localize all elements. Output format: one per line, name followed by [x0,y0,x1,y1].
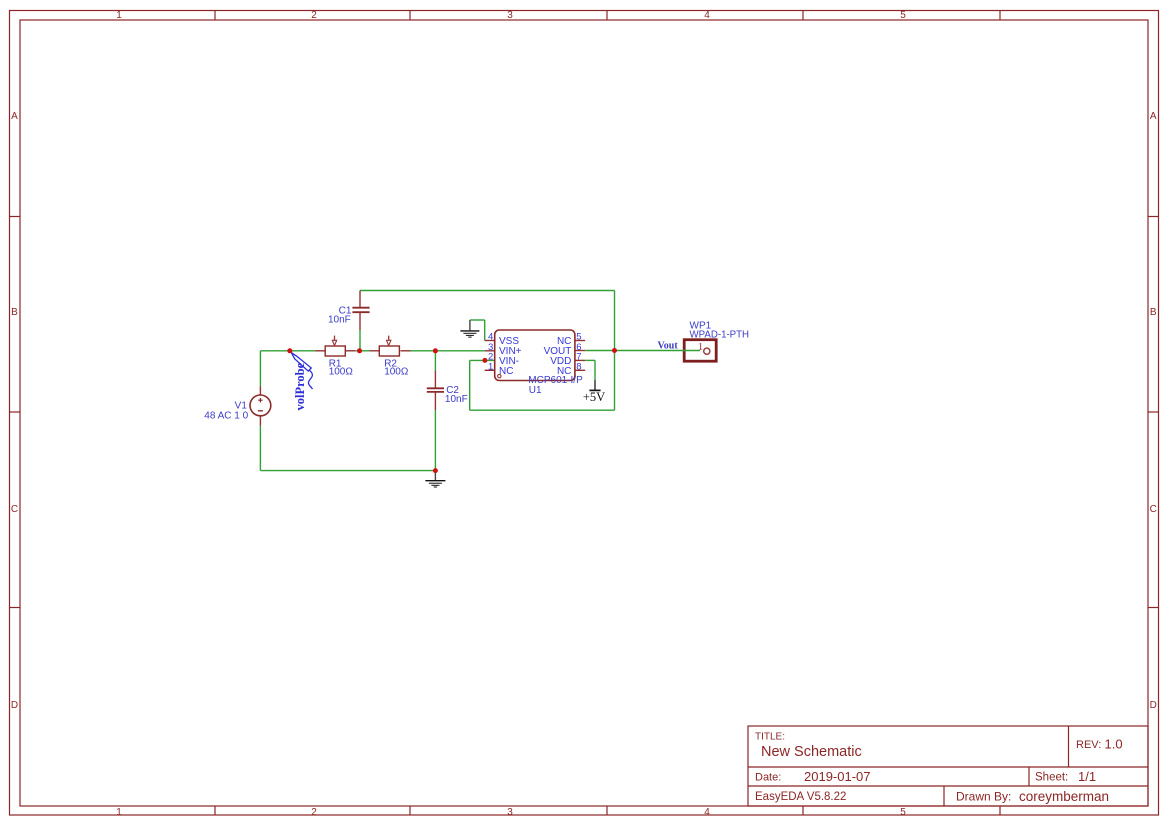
power +5V [583,380,605,404]
probe volProbe [291,353,312,390]
svg-text:D: D [11,700,18,711]
svg-text:1: 1 [488,362,493,373]
svg-text:5: 5 [900,10,906,21]
column ticks top [214,11,216,21]
title block text [755,732,1123,805]
body [495,330,575,381]
svg-text:1/1: 1/1 [1078,769,1096,784]
frame column numbers top [116,10,906,21]
wire V1 top vertical [259,351,261,386]
junction node output [612,348,617,353]
junction node C2 top [433,348,438,353]
wire main left segment [260,291,614,471]
capacitor C1 [328,291,370,331]
pin 1 stub [485,369,495,371]
svg-text:D: D [1150,700,1157,711]
svg-text:1: 1 [116,10,122,21]
wire C1 bottom [359,330,361,351]
wire right vertical [614,291,616,411]
svg-text:TITLE:: TITLE: [755,732,785,743]
pin 4 stub [485,340,495,342]
svg-text:8: 8 [576,362,581,373]
svg-text:1.0: 1.0 [1105,737,1123,752]
svg-text:1: 1 [698,341,704,353]
svg-text:100Ω: 100Ω [329,367,354,378]
wire into pad [585,350,700,352]
junction node main/probe [287,348,292,353]
title block borders [748,726,1148,806]
frame row letters left [11,111,18,711]
pin 8 stub [575,369,585,371]
svg-text:5: 5 [900,807,906,818]
row ticks left [10,216,21,218]
svg-text:10nF: 10nF [328,314,351,325]
wire between R1 and R2 [355,350,369,352]
svg-text:Sheet:: Sheet: [1035,772,1068,784]
svg-text:10nF: 10nF [445,394,468,405]
svg-text:A: A [1150,111,1157,122]
pin 7 stub [575,359,585,361]
wire R2 to U1 pin3 [411,350,486,352]
wire gnd1 vertical [484,320,486,341]
wire C2 bottom [434,410,436,471]
svg-text:REV:: REV: [1076,739,1101,751]
svg-text:100Ω: 100Ω [384,367,409,378]
wire gnd1 horizontal [470,319,485,321]
svg-text:+5V: +5V [583,390,605,404]
wire V1 bottom vertical [259,426,261,471]
junction node R1-R2-C1 [357,348,362,353]
svg-text:48 AC 1 0: 48 AC 1 0 [204,411,248,422]
svg-text:EasyEDA V5.8.22: EasyEDA V5.8.22 [755,791,846,803]
pin 3 stub [485,350,495,352]
svg-text:C: C [11,504,18,515]
junction node VIN- [482,358,487,363]
svg-text:U1: U1 [529,385,542,396]
svg-text:NC: NC [499,366,513,377]
svg-text:coreymberman: coreymberman [1019,789,1109,804]
svg-text:WPAD-1-PTH: WPAD-1-PTH [690,329,750,340]
svg-text:2019-01-07: 2019-01-07 [804,769,871,784]
svg-text:volProbe: volProbe [293,362,307,410]
pad WP1 [585,320,749,361]
svg-text:Date:: Date: [755,772,781,784]
svg-text:3: 3 [507,10,513,21]
svg-text:New Schematic: New Schematic [761,744,862,760]
op-amp U1 [485,330,586,396]
wire feedback to pin2 [470,359,495,361]
wire C2 top [434,351,436,371]
pin 5 stub [575,340,585,342]
frame row letters right [1150,111,1157,711]
svg-text:A: A [11,111,18,122]
svg-text:4: 4 [704,807,710,818]
pin 6 stub [575,350,585,352]
wire top rail horizontal [360,290,615,292]
svg-text:Drawn By:: Drawn By: [956,790,1011,804]
row ticks right [1148,216,1159,218]
wire vdd vertical [594,360,596,380]
junction node ground [433,468,438,473]
column ticks bottom [214,806,216,815]
voltage source V1 [204,386,271,426]
svg-text:2: 2 [311,807,317,818]
resistor R2 [369,336,410,378]
wire feedback bottom [470,409,615,411]
svg-text:2: 2 [311,10,317,21]
wire feedback left vertical [469,360,471,410]
frame column numbers bottom [116,807,906,818]
svg-text:C: C [1150,504,1157,515]
wire bottom ground rail [260,470,435,472]
capacitor C2 [427,371,468,411]
ground GND1 (near pin 4) [460,320,479,337]
svg-text:Vout: Vout [658,340,679,351]
ground GND2 (bottom rail) [425,471,445,487]
svg-text:4: 4 [704,10,710,21]
svg-text:B: B [11,307,18,318]
wire vdd horizontal [585,359,595,361]
svg-text:3: 3 [507,807,513,818]
svg-text:B: B [1150,307,1157,318]
resistor R1 [315,336,355,378]
svg-text:1: 1 [116,807,122,818]
pin1 marker [498,374,501,377]
